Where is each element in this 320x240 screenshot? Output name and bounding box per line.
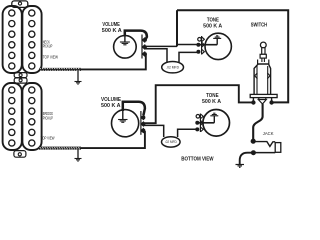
collar nut [260, 54, 266, 58]
right bobbin [22, 83, 41, 150]
terminals [252, 98, 254, 103]
jumper loop [123, 102, 145, 116]
wire: P1 hot lead to VR1 lug 3 [81, 54, 146, 69]
svg-text:TOP VIEW: TOP VIEW [41, 136, 56, 141]
left bobbin [3, 6, 22, 73]
body with shoulders [254, 64, 271, 94]
toggle switch SW1 [250, 42, 277, 105]
svg-text:SWITCH: SWITCH [251, 23, 268, 29]
wire: VR1 lug to capacitor C1 left lead [145, 49, 167, 62]
svg-text:500 K A: 500 K A [202, 99, 221, 105]
svg-text:TOP VIEW: TOP VIEW [43, 54, 59, 59]
label: BRIDGE PICKUP / TOP VIEW [41, 111, 56, 140]
label: SWITCH [251, 23, 268, 29]
lug open circle [198, 38, 202, 42]
junction: jack sleeve node [251, 150, 256, 155]
svg-text:.02 MFD: .02 MFD [165, 140, 178, 144]
lever [262, 48, 265, 55]
pole pieces right [29, 10, 35, 16]
junction: jack hot node [251, 139, 256, 144]
top mounting tab [12, 1, 28, 8]
wire: SW1 common terminal to jack J1 hot [253, 104, 262, 141]
potentiometer VR1 (neck volume 500K) [114, 31, 147, 59]
potentiometer VR3 (bridge volume 500K) [112, 102, 146, 137]
svg-text:BOTTOM VIEW: BOTTOM VIEW [181, 156, 214, 162]
pole pieces left [9, 87, 15, 93]
output jack J1 [236, 142, 281, 168]
svg-text:PICKUP: PICKUP [43, 44, 53, 49]
svg-text:500 K A: 500 K A [102, 28, 122, 34]
lug plate [201, 36, 203, 55]
svg-text:500 K A: 500 K A [101, 103, 121, 109]
ground prong [253, 152, 275, 154]
potentiometer VR4 (bridge tone 500K) [195, 110, 229, 137]
svg-text:PICKUP: PICKUP [43, 116, 53, 121]
wire: P2 hot lead to VR3 lug 3 [81, 131, 145, 148]
wire: top bus to switch right terminal [177, 10, 288, 102]
top mounting tab [14, 78, 27, 83]
case ground wire [197, 122, 214, 124]
wire: C2 right lead to VR4 lower lug [178, 129, 198, 137]
pickup P1 (neck humbucker, top view) [3, 1, 42, 78]
lug plate [199, 114, 201, 133]
lug plate [140, 111, 142, 135]
wire: braided shield from pickup P2 [39, 147, 81, 149]
bottom mounting tab [14, 151, 26, 158]
wire: node A branch to VR2 lug [177, 44, 198, 46]
svg-text:.02 MFD: .02 MFD [166, 66, 179, 70]
potentiometer VR2 (neck tone 500K) [196, 33, 231, 59]
case ground inside [122, 110, 124, 119]
label: VOLUME 500 K A (VR3) [101, 97, 122, 109]
wire: VR3 lug to capacitor C2 left lead [143, 125, 163, 137]
label: JACK [263, 131, 274, 136]
pole pieces left [9, 10, 15, 16]
neck posts [258, 60, 269, 65]
jumper loop pot top to lug 1 [125, 31, 147, 40]
svg-text:500 K A: 500 K A [203, 23, 222, 29]
contact arrows [255, 73, 258, 79]
wire: VR1 wiper to node A riser [145, 45, 177, 47]
label: TONE 500 K A (VR4) [202, 93, 221, 105]
jack body square [275, 143, 281, 153]
base plate [250, 94, 277, 97]
label: NECK PICKUP / TOP VIEW [43, 39, 59, 59]
wire: braided shield from pickup P1 [39, 69, 81, 71]
right bobbin [22, 6, 41, 73]
ground (P2 shield) [75, 149, 82, 161]
wire: node A riser to top bus [176, 10, 178, 46]
tip ball [260, 42, 266, 48]
case ground wire [198, 44, 217, 46]
lug plate [141, 35, 143, 59]
capacitor C2 (.02 MFD) [162, 137, 181, 147]
label: VOLUME 500 K A (VR1) [102, 22, 122, 34]
wire: jack sleeve to ground [240, 153, 254, 165]
wire: C1 right lead to VR2 lower lug [179, 52, 198, 62]
label: BOTTOM VIEW [181, 156, 214, 162]
case ground symbol inside [124, 36, 126, 42]
hot prong with tip detent [253, 142, 275, 147]
shaft stub [262, 58, 265, 62]
pickup P2 (bridge humbucker, top view) [3, 78, 42, 157]
ground (P1 shield) [75, 71, 82, 85]
bottom mounting tab [14, 73, 27, 78]
capacitor C1 (.02 MFD) [162, 61, 184, 72]
left bobbin [3, 83, 22, 150]
pole pieces right [29, 87, 35, 93]
label: TONE 500 K A (VR2) [203, 17, 222, 29]
wire: VR3 wiper to SW1 left terminal [143, 85, 252, 123]
svg-text:JACK: JACK [263, 131, 274, 136]
